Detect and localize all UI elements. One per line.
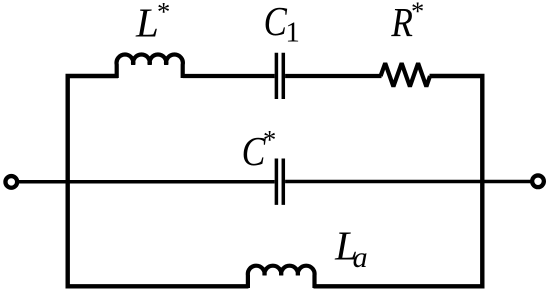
wire: top-right horizontal, right vertical, bottom-right horizontal <box>314 76 483 286</box>
svg-text:1: 1 <box>285 16 300 48</box>
terminal right <box>532 175 544 187</box>
resistor R* <box>381 63 430 86</box>
capacitor C* <box>276 159 283 205</box>
wire: L* to C1 <box>183 74 275 78</box>
inductor L* <box>117 54 183 78</box>
terminal left <box>5 176 17 188</box>
wire: middle-right from C* to terminal <box>285 180 531 184</box>
wire: middle-left from terminal to C* <box>17 180 275 184</box>
svg-text:*: * <box>410 0 424 26</box>
wire: C1 to R* <box>285 74 381 78</box>
svg-text:C: C <box>264 0 288 45</box>
inductor La <box>248 266 315 288</box>
capacitor C1 <box>276 53 283 99</box>
svg-text:a: a <box>353 241 368 274</box>
svg-text:*: * <box>156 0 170 27</box>
svg-text:*: * <box>262 125 276 155</box>
wire: top-left horizontal, left vertical, bottom-left horizontal <box>68 76 249 286</box>
